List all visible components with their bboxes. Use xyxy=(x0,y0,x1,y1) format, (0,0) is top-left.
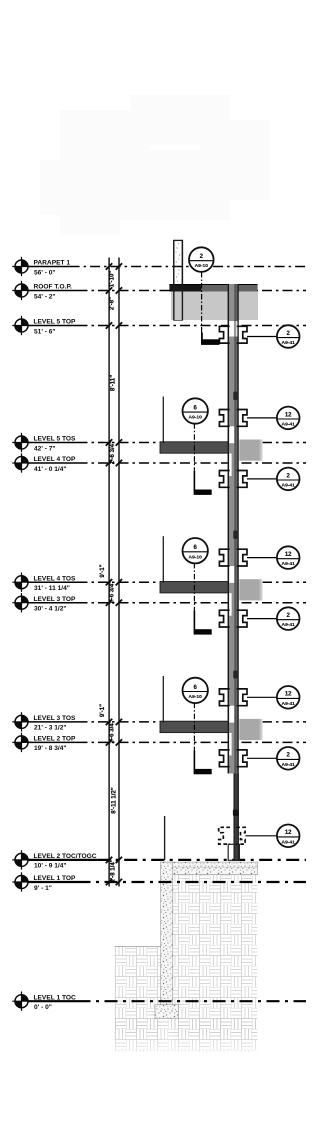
svg-text:LEVEL 2 TOC/TOGC: LEVEL 2 TOC/TOGC xyxy=(34,853,97,860)
column splice above LEVEL 4 TOS xyxy=(219,549,229,566)
slab edge angle (thick L) level 4 xyxy=(194,629,212,634)
datum symbol LEVEL 2 TOC/TOGC xyxy=(12,850,30,869)
svg-text:12: 12 xyxy=(285,552,292,558)
svg-text:PARAPET 1: PARAPET 1 xyxy=(34,260,71,267)
svg-text:LEVEL 1 TOP: LEVEL 1 TOP xyxy=(34,875,76,882)
svg-text:21' - 3 1/2": 21' - 3 1/2" xyxy=(34,725,67,732)
svg-text:42' - 7": 42' - 7" xyxy=(34,445,56,452)
level line LEVEL 5 TOP xyxy=(28,325,78,327)
svg-text:A9-41: A9-41 xyxy=(282,701,296,707)
leader from callout 6/A9-10 level 3 xyxy=(193,703,195,770)
datum symbol LEVEL 3 TOS xyxy=(12,712,30,731)
earth hatch below footing xyxy=(115,1019,258,1053)
datum symbol LEVEL 4 TOP xyxy=(12,453,30,472)
lower column (HSS below level 2) xyxy=(234,774,239,861)
wall stud line above foundation xyxy=(164,816,166,860)
level line LEVEL 1 TOP xyxy=(28,881,78,883)
level line LEVEL 3 TOS xyxy=(28,721,78,723)
leader from callout 6/A9-10 level 4 xyxy=(193,563,195,630)
datum symbol LEVEL 4 TOS xyxy=(12,573,30,592)
callout 12/A9-41 at y 557.6 xyxy=(277,546,300,569)
svg-text:8'-11": 8'-11" xyxy=(110,375,117,391)
earth hatch right of foundation wall xyxy=(173,875,258,1053)
callout 12/A9-41 at y 417.9 xyxy=(277,407,300,430)
leader to callout 12/A9-41 at y 835.8 xyxy=(245,835,277,837)
datum symbol LEVEL 1 TOP xyxy=(12,872,30,891)
callout 2/A9-41 at y 758.3 xyxy=(277,747,300,770)
svg-text:A9-41: A9-41 xyxy=(282,561,296,567)
faint watermark blocks (near-white) xyxy=(40,95,270,235)
callout 2/A9-10 (roof) xyxy=(189,247,214,272)
level line LEVEL 4 TOP xyxy=(28,462,78,464)
datum symbol LEVEL 1 TOC xyxy=(12,992,30,1011)
grade line left of wall xyxy=(115,946,161,948)
wall stud line above slab level 3 xyxy=(162,676,164,723)
leader to callout 12/A9-41 at y 417.9 xyxy=(247,417,278,419)
parapet wall xyxy=(174,240,183,320)
column splice below LEVEL 2 TOP xyxy=(219,750,229,767)
roof slab dark band (black portion / edge beam) xyxy=(169,284,201,291)
svg-text:LEVEL 1 TOC: LEVEL 1 TOC xyxy=(34,994,76,1001)
svg-text:30' - 4 1/2": 30' - 4 1/2" xyxy=(34,606,67,613)
svg-text:41' - 0 1/4": 41' - 0 1/4" xyxy=(34,466,67,473)
leader to callout 2/A9-41 at y 758.3 xyxy=(247,757,278,759)
earth hatch left of foundation wall xyxy=(115,947,161,1052)
svg-text:LEVEL 3 TOP: LEVEL 3 TOP xyxy=(34,596,76,603)
callout 12/A9-41 at y 697.3 xyxy=(277,686,300,709)
svg-text:LEVEL 4 TOP: LEVEL 4 TOP xyxy=(34,456,76,463)
svg-text:A9-10: A9-10 xyxy=(195,263,209,269)
svg-text:LEVEL 2 TOP: LEVEL 2 TOP xyxy=(34,736,76,743)
svg-text:1'-8 1/4": 1'-8 1/4" xyxy=(110,859,117,882)
column splice below LEVEL 3 TOP xyxy=(219,610,229,627)
leader to callout 2/A9-41 at y 618.6 xyxy=(247,618,278,620)
svg-text:LEVEL 3 TOS: LEVEL 3 TOS xyxy=(34,715,76,722)
svg-text:10' - 9 1/4": 10' - 9 1/4" xyxy=(34,863,67,870)
svg-text:12: 12 xyxy=(285,692,292,698)
parapet edge lines over bands xyxy=(173,240,175,320)
wall stud line above slab level 5 xyxy=(162,397,164,444)
svg-text:1'-6 3/4": 1'-6 3/4" xyxy=(109,581,116,604)
lower column weld mark xyxy=(233,810,239,817)
leader from callout 6/A9-10 level 5 xyxy=(193,423,195,490)
svg-text:A9-41: A9-41 xyxy=(282,762,296,768)
floor slab level 3 xyxy=(160,721,229,732)
datum symbol ROOF T.O.P. xyxy=(12,281,30,300)
svg-text:A9-10: A9-10 xyxy=(189,415,203,421)
svg-text:A9-10: A9-10 xyxy=(189,694,203,700)
column joint white gaps level 5 xyxy=(229,426,234,443)
svg-text:LEVEL 4 TOS: LEVEL 4 TOS xyxy=(34,575,76,582)
level line LEVEL 3 TOP xyxy=(28,602,78,604)
callout 2/A9-41 at y 336.5 xyxy=(277,325,300,348)
leader to callout 12/A9-41 at y 697.3 xyxy=(247,696,278,698)
svg-text:31' - 11 1/4": 31' - 11 1/4" xyxy=(34,585,70,592)
level line PARAPET 1 xyxy=(28,266,70,268)
level line LEVEL 5 TOS xyxy=(28,442,78,444)
parapet stipple dots xyxy=(175,243,180,281)
callout 6/A9-10 level 5 xyxy=(183,398,208,423)
svg-text:8'-11 1/2": 8'-11 1/2" xyxy=(110,787,117,813)
datum symbol LEVEL 5 TOP xyxy=(12,316,30,335)
concrete foundation wall xyxy=(161,862,173,1005)
level line ROOF T.O.P. xyxy=(28,290,78,292)
svg-text:A9-41: A9-41 xyxy=(282,483,296,489)
callout 2/A9-41 at y 478.9 xyxy=(277,468,300,491)
leader to callout 12/A9-41 at y 557.6 xyxy=(247,557,278,559)
roof edge angle (thick L) xyxy=(201,333,203,341)
wall stud line above slab level 4 xyxy=(162,536,164,583)
svg-text:A9-41: A9-41 xyxy=(282,422,296,428)
datum symbol LEVEL 2 TOP xyxy=(12,733,30,752)
slab edge angle (thick L) level 5 xyxy=(194,490,212,495)
column splice joint white gap (top splice) xyxy=(229,321,237,337)
basement column outline below base plate xyxy=(228,844,239,860)
callout 12/A9-41 at y 835.8 xyxy=(277,825,300,848)
column splice above LEVEL 3 TOS xyxy=(219,689,229,706)
svg-text:9'-1": 9'-1" xyxy=(99,704,106,717)
column splice above LEVEL 5 TOS xyxy=(219,410,229,427)
floor slab level 5 xyxy=(160,442,229,453)
callout 2/A9-41 at y 618.6 xyxy=(277,607,300,630)
svg-text:LEVEL 5 TOP: LEVEL 5 TOP xyxy=(34,319,76,326)
column base plate (dashed) xyxy=(219,827,230,844)
callout 6/A9-10 level 3 xyxy=(183,678,208,703)
dimension line right xyxy=(118,258,120,887)
svg-text:1'-6 3/4": 1'-6 3/4" xyxy=(109,441,116,464)
svg-text:2'-8": 2'-8" xyxy=(108,297,115,310)
svg-text:1'-10": 1'-10" xyxy=(108,271,115,288)
leader from callout 2/A9-10 xyxy=(201,272,203,339)
svg-text:51' - 6": 51' - 6" xyxy=(34,328,56,335)
leader to callout 2/A9-41 at y 478.9 xyxy=(247,478,278,480)
svg-text:9'-1": 9'-1" xyxy=(99,564,106,577)
dimension tick marks xyxy=(106,263,122,885)
steel column W-shape (upper levels) xyxy=(228,284,239,774)
svg-text:0' - 0": 0' - 0" xyxy=(34,1004,52,1011)
slab edge angle (thick L) level 3 xyxy=(194,769,212,774)
column splice below LEVEL 4 TOP xyxy=(219,471,229,488)
roof slab dark band (gray portion) xyxy=(201,284,257,291)
svg-text:12: 12 xyxy=(285,412,292,418)
slab/deck patch right of column level 3 xyxy=(239,719,259,740)
slab/deck patch right of column level 4 xyxy=(239,579,259,600)
column weld marks xyxy=(233,392,237,679)
column joint white gaps level 3 xyxy=(229,706,234,723)
svg-text:1'-6 3/4": 1'-6 3/4" xyxy=(109,720,116,743)
svg-text:A9-41: A9-41 xyxy=(282,839,296,845)
svg-text:54' - 2": 54' - 2" xyxy=(34,293,56,300)
slab/deck patch right of column level 5 xyxy=(239,440,259,461)
level line LEVEL 4 TOS xyxy=(28,581,78,583)
callout 6/A9-10 level 4 xyxy=(183,538,208,563)
column splice below LEVEL 5 TOP xyxy=(219,326,229,343)
datum symbol LEVEL 5 TOS xyxy=(12,433,30,452)
level line LEVEL 1 TOC xyxy=(28,1000,78,1002)
level line LEVEL 2 TOC/TOGC xyxy=(28,859,97,861)
datum symbol LEVEL 3 TOP xyxy=(12,593,30,612)
svg-text:A9-41: A9-41 xyxy=(282,340,296,346)
svg-text:A9-41: A9-41 xyxy=(282,622,296,628)
dimension line left xyxy=(108,258,110,887)
svg-text:LEVEL 5 TOS: LEVEL 5 TOS xyxy=(34,436,76,443)
earth hatch fade out at bottom xyxy=(110,1030,262,1066)
datum symbol PARAPET 1 xyxy=(12,257,30,276)
svg-text:A9-10: A9-10 xyxy=(189,554,203,560)
roof lower light band (wall/insulation) xyxy=(171,292,258,320)
svg-text:56' - 0": 56' - 0" xyxy=(34,269,56,276)
svg-text:9' - 1": 9' - 1" xyxy=(34,885,52,892)
column joint white gaps level 4 xyxy=(229,566,234,583)
svg-text:ROOF T.O.P.: ROOF T.O.P. xyxy=(34,284,73,291)
svg-text:19' - 8 3/4": 19' - 8 3/4" xyxy=(34,745,67,752)
level line LEVEL 2 TOP xyxy=(28,741,78,743)
concrete footing xyxy=(155,1005,178,1019)
floor slab level 4 xyxy=(160,582,229,593)
svg-text:12: 12 xyxy=(285,830,292,836)
concrete slab on grade cap xyxy=(161,862,257,874)
leader to callout 2/A9-41 at y 336.5 xyxy=(247,336,278,338)
